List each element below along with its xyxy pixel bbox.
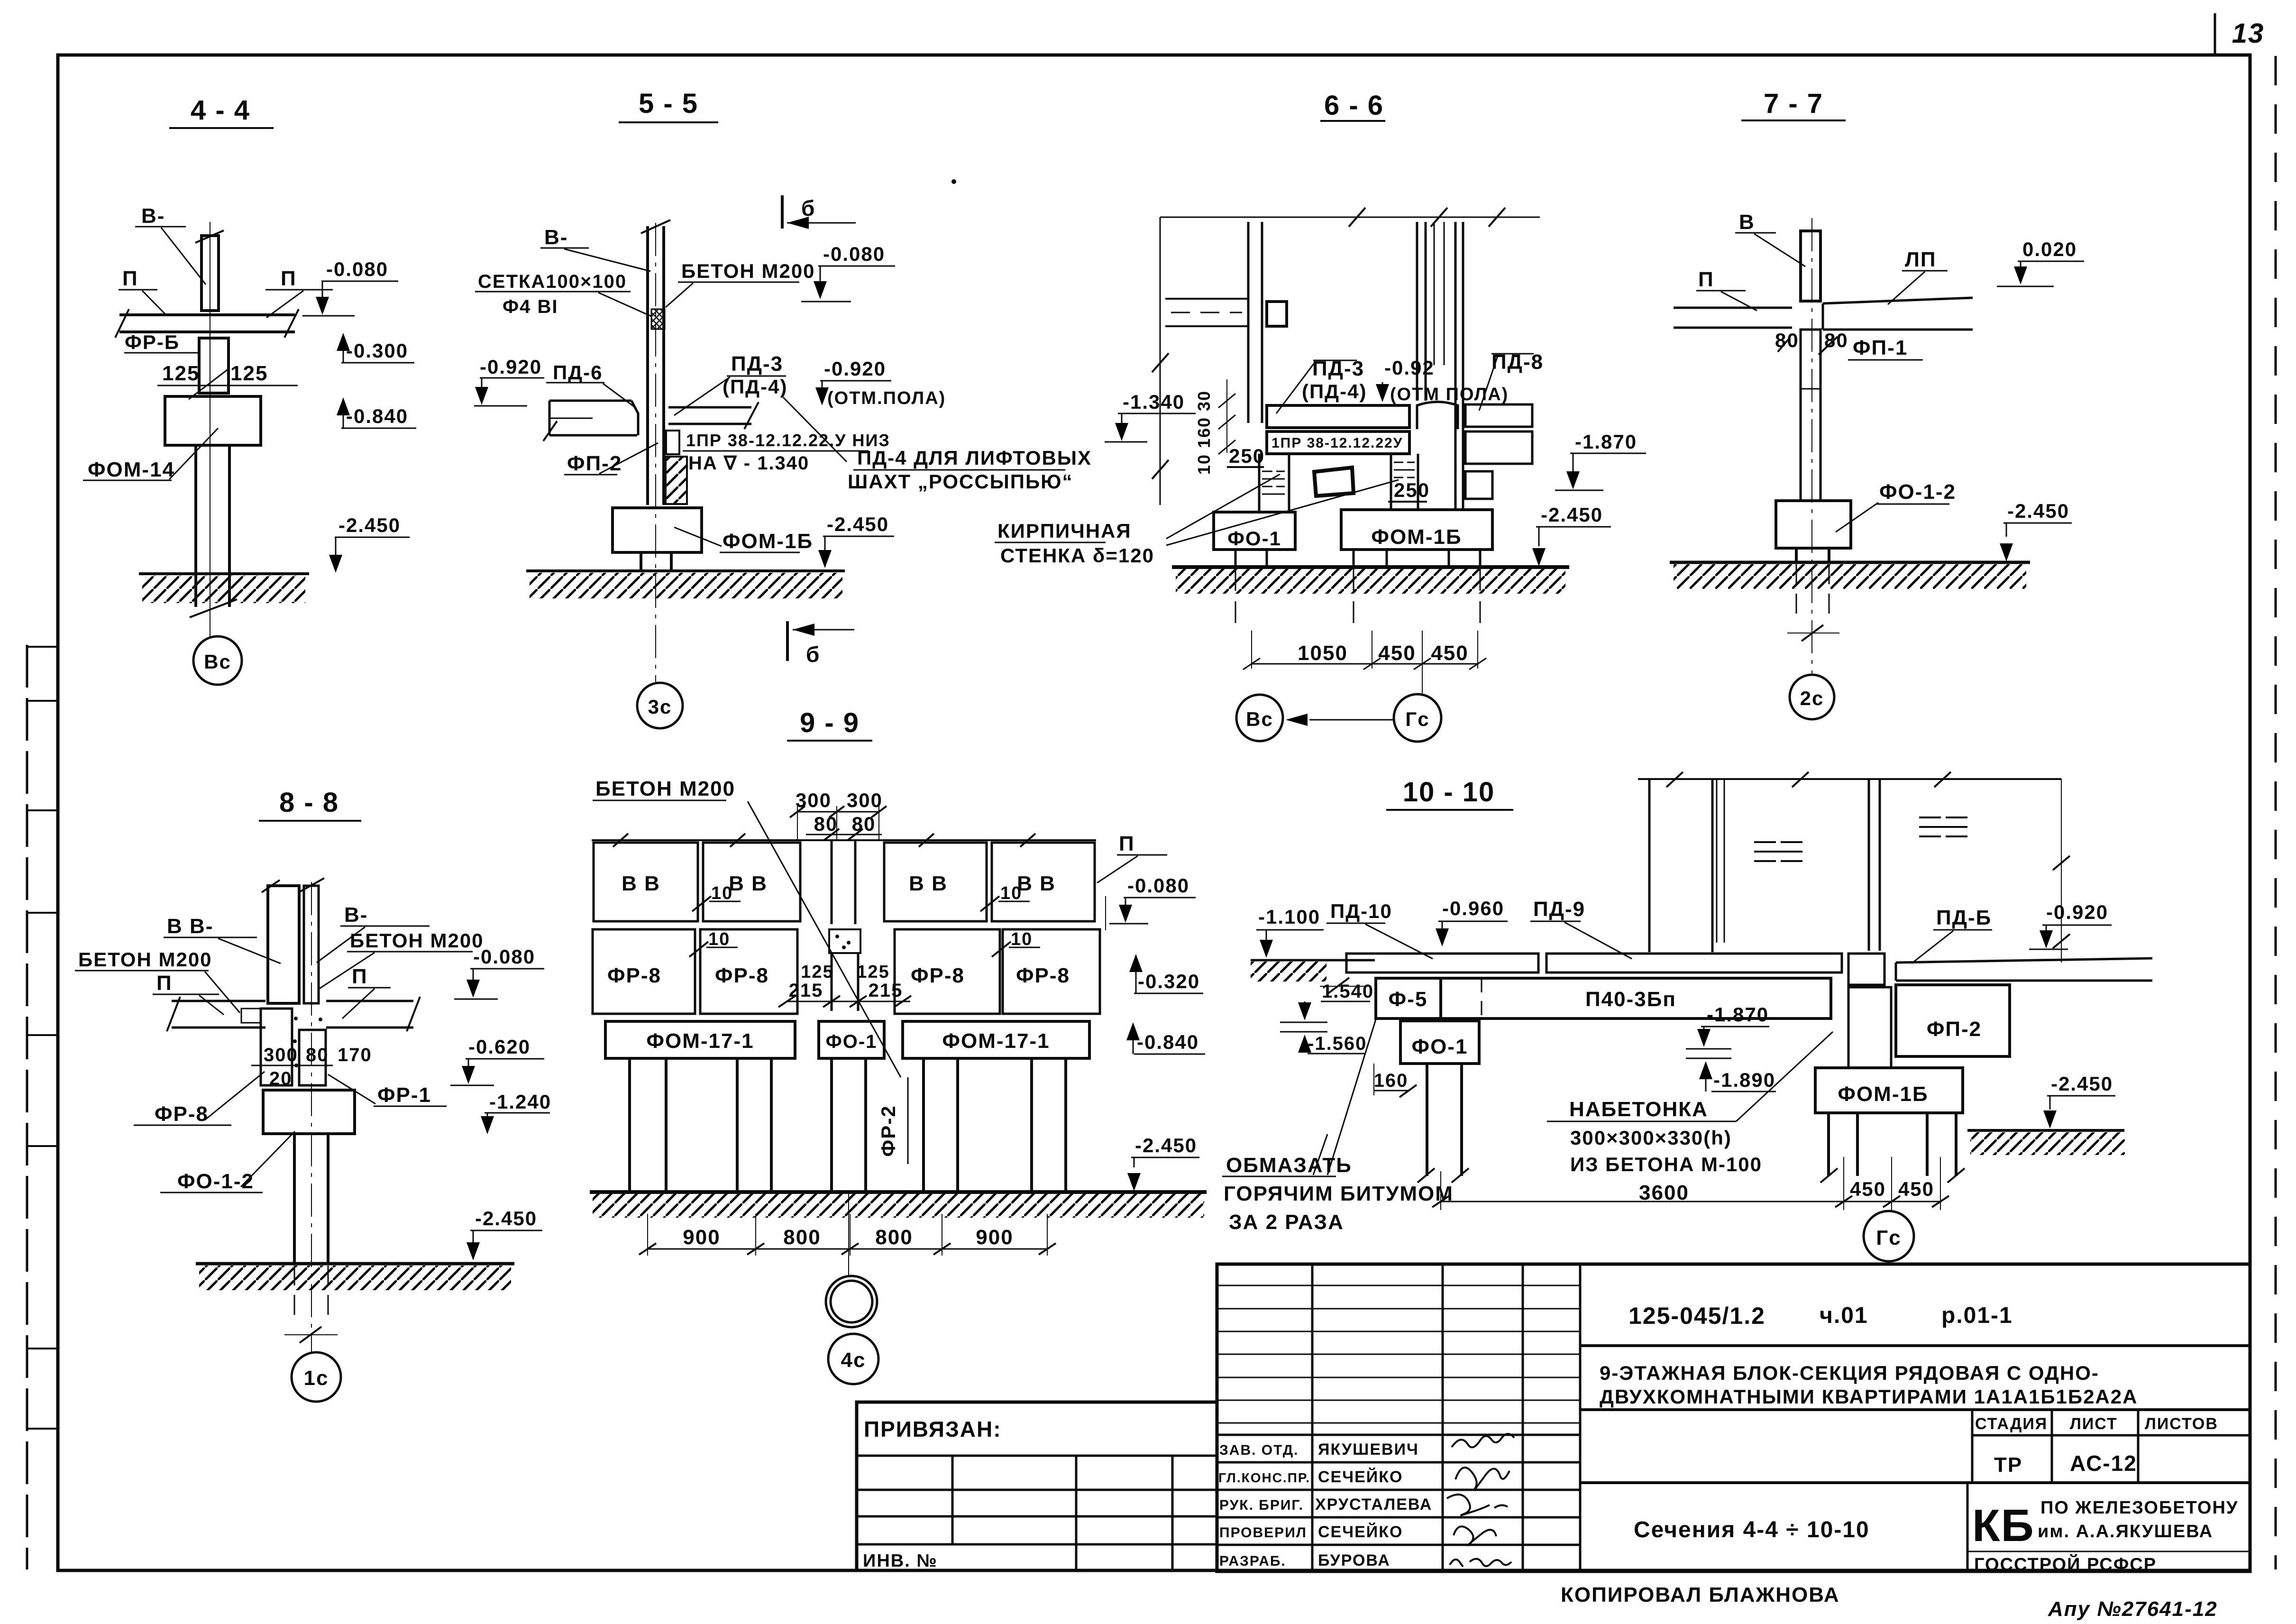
svg-text:-0.920: -0.920: [824, 358, 886, 380]
svg-text:-0.320: -0.320: [1138, 970, 1200, 992]
svg-text:450: 450: [1898, 1178, 1934, 1200]
svg-text:5 - 5: 5 - 5: [639, 88, 698, 119]
svg-text:РУК. БРИГ.: РУК. БРИГ.: [1219, 1497, 1304, 1513]
svg-text:ПРИВЯЗАН:: ПРИВЯЗАН:: [864, 1417, 1002, 1441]
svg-text:П: П: [156, 972, 173, 995]
svg-text:ФОМ-1Б: ФОМ-1Б: [1838, 1083, 1928, 1106]
svg-text:В-: В-: [544, 226, 568, 249]
svg-text:ЗА 2 РАЗА: ЗА 2 РАЗА: [1229, 1211, 1344, 1234]
svg-text:ДВУХКОМНАТНЫМИ КВАРТИРАМИ 1А1А: ДВУХКОМНАТНЫМИ КВАРТИРАМИ 1А1А1Б1Б2А2А: [1600, 1385, 2138, 1408]
svg-text:-0.620: -0.620: [468, 1036, 531, 1058]
svg-text:П: П: [352, 965, 368, 988]
svg-text:80: 80: [1824, 329, 1848, 351]
svg-text:-0.92: -0.92: [1384, 357, 1435, 379]
svg-text:ЗАВ. ОТД.: ЗАВ. ОТД.: [1219, 1442, 1299, 1458]
svg-text:ФОМ-17-1: ФОМ-17-1: [942, 1029, 1050, 1053]
svg-text:СЕТКА100×100: СЕТКА100×100: [478, 271, 627, 292]
svg-text:ТР: ТР: [1994, 1453, 2022, 1477]
svg-text:ФП-2: ФП-2: [567, 452, 622, 475]
svg-text:-2.450: -2.450: [1135, 1134, 1197, 1156]
svg-text:б: б: [806, 642, 820, 667]
svg-text:-1.890: -1.890: [1713, 1069, 1775, 1091]
svg-text:1с: 1с: [304, 1367, 329, 1390]
svg-text:ГОССТРОЙ РСФСР: ГОССТРОЙ РСФСР: [1974, 1553, 2157, 1575]
svg-text:ПД-4 ДЛЯ ЛИФТОВЫХ: ПД-4 ДЛЯ ЛИФТОВЫХ: [857, 447, 1092, 469]
svg-text:-0.840: -0.840: [1137, 1031, 1199, 1053]
svg-text:ПРОВЕРИЛ: ПРОВЕРИЛ: [1219, 1525, 1307, 1541]
svg-text:10: 10: [1000, 883, 1022, 903]
svg-text:БУРОВА: БУРОВА: [1318, 1551, 1390, 1569]
svg-text:10: 10: [711, 883, 733, 903]
svg-text:300×300×330(h): 300×300×330(h): [1570, 1127, 1732, 1149]
svg-text:СТАДИЯ: СТАДИЯ: [1975, 1415, 2048, 1433]
svg-text:800: 800: [783, 1226, 821, 1249]
svg-text:ПД-Б: ПД-Б: [1936, 906, 1992, 929]
svg-text:1ПР 38-12.12.22У: 1ПР 38-12.12.22У: [1271, 435, 1403, 451]
svg-text:ФР-Б: ФР-Б: [125, 331, 180, 353]
svg-text:1.540: 1.540: [1322, 981, 1374, 1002]
svg-text:-2.450: -2.450: [1541, 504, 1603, 526]
svg-text:(ПД-4): (ПД-4): [723, 376, 787, 398]
svg-text:ФО-1-2: ФО-1-2: [1879, 480, 1956, 504]
svg-text:9-ЭТАЖНАЯ БЛОК-СЕКЦИЯ РЯДОВАЯ: 9-ЭТАЖНАЯ БЛОК-СЕКЦИЯ РЯДОВАЯ С ОДНО-: [1600, 1362, 2099, 1384]
svg-text:ПД-9: ПД-9: [1533, 898, 1585, 921]
svg-text:170: 170: [338, 1045, 372, 1065]
svg-text:КОПИРОВАЛ БЛАЖНОВА: КОПИРОВАЛ БЛАЖНОВА: [1561, 1583, 1840, 1606]
svg-text:В В: В В: [729, 872, 768, 895]
svg-text:-1.340: -1.340: [1123, 391, 1185, 413]
svg-text:(ОТМ ПОЛА): (ОТМ ПОЛА): [1390, 385, 1509, 404]
svg-text:-0.080: -0.080: [326, 258, 388, 280]
svg-text:-1.560: -1.560: [1308, 1033, 1367, 1054]
svg-text:В-: В-: [344, 903, 368, 927]
svg-text:10: 10: [708, 929, 730, 949]
svg-text:ЛИСТОВ: ЛИСТОВ: [2145, 1415, 2218, 1433]
svg-text:ФО-1: ФО-1: [1227, 527, 1281, 550]
svg-text:В В: В В: [1017, 872, 1056, 895]
svg-text:ШАХТ „РОССЫПЬЮ“: ШАХТ „РОССЫПЬЮ“: [848, 470, 1073, 493]
svg-text:250: 250: [1394, 479, 1430, 501]
svg-text:НА ∇ - 1.340: НА ∇ - 1.340: [688, 453, 809, 474]
svg-text:450: 450: [1850, 1178, 1886, 1200]
svg-text:ФР-1: ФР-1: [377, 1083, 431, 1107]
svg-text:КИРПИЧНАЯ: КИРПИЧНАЯ: [997, 520, 1132, 542]
svg-text:В В: В В: [622, 872, 660, 895]
svg-text:-0.920: -0.920: [2046, 901, 2108, 923]
svg-text:П: П: [281, 267, 297, 290]
svg-text:10 160 30: 10 160 30: [1194, 390, 1214, 475]
svg-text:-1.870: -1.870: [1707, 1003, 1769, 1026]
svg-text:ЛП: ЛП: [1905, 248, 1937, 271]
svg-text:-0.080: -0.080: [823, 243, 885, 265]
svg-text:ФО-1: ФО-1: [826, 1031, 878, 1052]
svg-text:П40-3Бп: П40-3Бп: [1585, 988, 1676, 1011]
svg-text:-0.960: -0.960: [1442, 897, 1504, 919]
svg-text:ПД-3: ПД-3: [731, 352, 783, 376]
svg-text:-2.450: -2.450: [475, 1207, 537, 1229]
svg-text:АС-12: АС-12: [2070, 1451, 2137, 1476]
svg-text:1050: 1050: [1298, 642, 1348, 665]
svg-text:П: П: [1119, 832, 1135, 855]
svg-text:ПД-8: ПД-8: [1491, 350, 1544, 374]
svg-text:БЕТОН М200: БЕТОН М200: [595, 777, 735, 800]
svg-text:-0.300: -0.300: [346, 339, 408, 362]
svg-text:Апу №27641-12: Апу №27641-12: [2048, 1597, 2218, 1621]
svg-text:4 - 4: 4 - 4: [191, 95, 250, 126]
svg-text:Ф-5: Ф-5: [1389, 988, 1428, 1011]
svg-text:В В: В В: [909, 872, 948, 895]
svg-text:ХРУСТАЛЕВА: ХРУСТАЛЕВА: [1315, 1496, 1432, 1514]
svg-text:250: 250: [1229, 445, 1265, 467]
svg-text:ФР-8: ФР-8: [911, 964, 965, 987]
svg-text:ФР-8: ФР-8: [155, 1102, 209, 1126]
svg-text:-0.080: -0.080: [473, 945, 535, 968]
svg-text:ПД-3: ПД-3: [1312, 357, 1364, 380]
svg-text:215: 215: [789, 980, 823, 1001]
svg-text:ЯКУШЕВИЧ: ЯКУШЕВИЧ: [1318, 1440, 1419, 1459]
svg-text:Сечения 4-4 ÷ 10-10: Сечения 4-4 ÷ 10-10: [1634, 1517, 1870, 1542]
svg-text:300: 300: [847, 789, 883, 811]
svg-text:9 - 9: 9 - 9: [800, 707, 860, 738]
svg-text:СТЕНКА δ=120: СТЕНКА δ=120: [1000, 544, 1154, 567]
svg-text:3600: 3600: [1639, 1181, 1689, 1204]
svg-text:80: 80: [306, 1045, 329, 1065]
svg-text:БЕТОН М200: БЕТОН М200: [78, 948, 212, 971]
svg-text:125: 125: [801, 962, 833, 982]
svg-text:В-: В-: [141, 204, 165, 228]
svg-text:-2.450: -2.450: [2007, 500, 2069, 522]
svg-text:450: 450: [1431, 642, 1468, 665]
svg-text:10 - 10: 10 - 10: [1403, 777, 1495, 807]
svg-text:ФОМ-17-1: ФОМ-17-1: [646, 1029, 754, 1053]
svg-text:80: 80: [1775, 329, 1799, 351]
svg-text:НАБЕТОНКА: НАБЕТОНКА: [1569, 1098, 1708, 1121]
svg-text:ФР-8: ФР-8: [715, 964, 769, 987]
svg-text:-2.450: -2.450: [2051, 1073, 2113, 1095]
svg-text:ФОМ-1Б: ФОМ-1Б: [723, 530, 813, 553]
svg-text:-1.870: -1.870: [1575, 431, 1637, 453]
svg-text:ИНВ. №: ИНВ. №: [863, 1551, 938, 1571]
svg-text:ПД-6: ПД-6: [553, 361, 603, 384]
svg-text:13: 13: [2232, 18, 2265, 49]
svg-text:им. А.А.ЯКУШЕВА: им. А.А.ЯКУШЕВА: [2038, 1522, 2213, 1541]
svg-text:ОБМАЗАТЬ: ОБМАЗАТЬ: [1226, 1154, 1352, 1177]
svg-text:-2.450: -2.450: [827, 513, 889, 535]
svg-text:0.020: 0.020: [2022, 238, 2077, 260]
svg-text:10: 10: [1011, 929, 1033, 949]
svg-text:ИЗ БЕТОНА М-100: ИЗ БЕТОНА М-100: [1570, 1153, 1762, 1175]
svg-text:-0.920: -0.920: [480, 356, 542, 378]
svg-text:В: В: [1739, 211, 1755, 234]
svg-text:Вс: Вс: [204, 651, 231, 673]
svg-text:20: 20: [269, 1068, 293, 1089]
svg-text:ФО-1-2: ФО-1-2: [177, 1170, 254, 1193]
svg-text:ФР-8: ФР-8: [1016, 964, 1070, 987]
svg-text:8 - 8: 8 - 8: [279, 787, 339, 818]
svg-text:6 - 6: 6 - 6: [1324, 90, 1384, 121]
svg-text:ГОРЯЧИМ БИТУМОМ: ГОРЯЧИМ БИТУМОМ: [1224, 1182, 1454, 1205]
svg-text:ГЛ.КОНС.ПР.: ГЛ.КОНС.ПР.: [1218, 1470, 1310, 1485]
svg-text:В В-: В В-: [167, 915, 213, 938]
svg-text:СЕЧЕЙКО: СЕЧЕЙКО: [1318, 1468, 1403, 1486]
svg-text:300: 300: [264, 1045, 298, 1065]
svg-text:215: 215: [869, 980, 903, 1001]
svg-text:-0.840: -0.840: [346, 405, 408, 427]
svg-text:б: б: [801, 196, 815, 220]
svg-text:-1.240: -1.240: [489, 1091, 551, 1113]
svg-text:450: 450: [1378, 642, 1416, 665]
svg-text:Гс: Гс: [1876, 1226, 1901, 1249]
svg-text:ФО-1: ФО-1: [1412, 1035, 1468, 1058]
svg-text:ФР-2: ФР-2: [877, 1105, 899, 1156]
svg-text:ЛИСТ: ЛИСТ: [2070, 1415, 2118, 1433]
svg-text:-2.450: -2.450: [338, 514, 401, 536]
svg-text:900: 900: [976, 1226, 1013, 1249]
svg-text:-1.100: -1.100: [1258, 906, 1320, 928]
svg-text:125-045/1.2: 125-045/1.2: [1628, 1303, 1765, 1329]
svg-text:ФОМ-1Б: ФОМ-1Б: [1371, 525, 1462, 549]
svg-text:РАЗРАБ.: РАЗРАБ.: [1219, 1553, 1286, 1569]
svg-text:80: 80: [814, 813, 838, 835]
svg-text:ФП-1: ФП-1: [1853, 336, 1908, 359]
svg-text:300: 300: [796, 789, 832, 811]
svg-text:Ф4 ВІ: Ф4 ВІ: [503, 296, 558, 317]
svg-text:Гс: Гс: [1405, 708, 1429, 730]
svg-text:ПД-10: ПД-10: [1330, 900, 1392, 922]
svg-text:800: 800: [875, 1226, 913, 1249]
svg-text:Вс: Вс: [1246, 708, 1273, 730]
svg-text:125: 125: [162, 362, 200, 385]
svg-text:СЕЧЕЙКО: СЕЧЕЙКО: [1318, 1523, 1403, 1541]
svg-text:900: 900: [683, 1226, 720, 1249]
svg-text:ФОМ-14: ФОМ-14: [88, 458, 175, 481]
svg-text:3с: 3с: [648, 696, 672, 718]
svg-text:-0.080: -0.080: [1127, 874, 1189, 897]
svg-text:КБ: КБ: [1972, 1500, 2035, 1551]
svg-text:2с: 2с: [1800, 687, 1824, 709]
svg-text:80: 80: [852, 813, 876, 835]
svg-text:7 - 7: 7 - 7: [1764, 88, 1823, 119]
svg-text:125: 125: [857, 962, 889, 982]
svg-text:БЕТОН М200: БЕТОН М200: [681, 260, 815, 282]
svg-text:ФП-2: ФП-2: [1927, 1018, 1982, 1041]
svg-text:р.01-1: р.01-1: [1941, 1303, 2013, 1328]
svg-text:П: П: [122, 267, 138, 290]
svg-text:4с: 4с: [841, 1349, 866, 1372]
svg-text:160: 160: [1374, 1070, 1409, 1091]
svg-text:БЕТОН М200: БЕТОН М200: [350, 929, 484, 952]
svg-text:(ОТМ.ПОЛА): (ОТМ.ПОЛА): [827, 388, 946, 408]
svg-text:ПО ЖЕЛЕЗОБЕТОНУ: ПО ЖЕЛЕЗОБЕТОНУ: [2040, 1498, 2239, 1518]
svg-text:ФР-8: ФР-8: [607, 964, 661, 987]
svg-text:ч.01: ч.01: [1820, 1303, 1868, 1328]
svg-text:125: 125: [230, 362, 268, 385]
svg-text:П: П: [1698, 268, 1714, 291]
svg-text:(ПД-4): (ПД-4): [1302, 380, 1367, 403]
